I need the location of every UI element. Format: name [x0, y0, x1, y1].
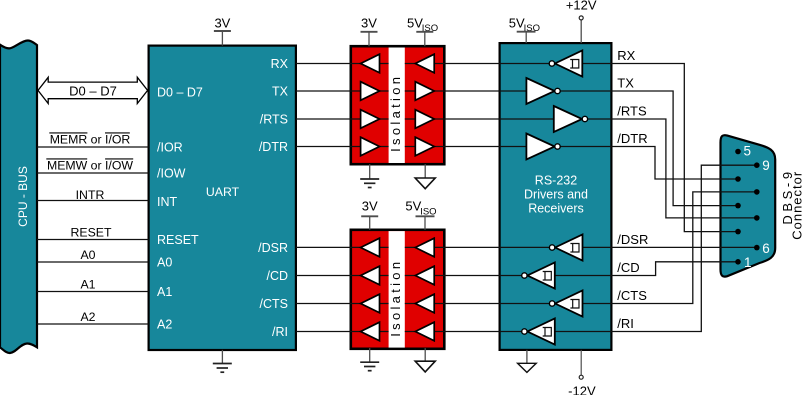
iso ground triangle (isolation upper right): [415, 164, 435, 189]
label MEMR or I/OR: [49, 133, 130, 147]
power 5V ISO (isolation lower): [405, 199, 436, 230]
isolation lower buffer row2 (left, points left): [361, 266, 380, 285]
DB9 pin 6: [754, 245, 760, 251]
receiver /CD (points left, bubble left): [522, 262, 555, 288]
receiver /DSR (points left, bubble left): [549, 234, 582, 260]
svg-text:Connector: Connector: [790, 171, 805, 240]
svg-text:/RI: /RI: [617, 316, 634, 331]
wire MEMW: [37, 172, 149, 174]
svg-text:ISO: ISO: [420, 206, 436, 217]
isolation upper buffer row4 (left, points right): [361, 137, 380, 156]
wire A0: [37, 261, 149, 263]
power 3V (isolation upper): [361, 16, 378, 47]
svg-text:1: 1: [744, 255, 752, 270]
svg-text:TX: TX: [272, 85, 289, 99]
isolation upper buffer row3 (left, points right): [361, 110, 380, 129]
svg-text:RX: RX: [271, 57, 289, 71]
wire INTR: [37, 200, 149, 202]
isolation lower buffer row3 (left, points left): [361, 294, 380, 313]
isolation lower buffer row4 (left, points left): [361, 322, 380, 341]
svg-text:5V: 5V: [509, 16, 525, 31]
svg-text:3V: 3V: [361, 16, 377, 31]
svg-text:5: 5: [744, 144, 752, 159]
svg-text:/IOR: /IOR: [157, 141, 183, 155]
svg-text:/DTR: /DTR: [259, 140, 288, 154]
wire /DTR row: [296, 147, 738, 180]
isolation lower buffer row2 (right, points left): [415, 266, 434, 285]
DB9 pin 9: [754, 162, 760, 168]
DB9 pin 8: [754, 189, 760, 195]
isolation lower buffer row4 (right, points left): [415, 322, 434, 341]
iso ground triangle (RS-232): [518, 350, 537, 373]
isolation upper buffer row1 (right, points left): [415, 54, 434, 73]
block isolation upper: [351, 46, 445, 164]
ground (UART): [213, 350, 232, 372]
isolation lower buffer row1 (left, points left): [361, 238, 380, 257]
svg-text:-12V: -12V: [568, 384, 596, 395]
svg-text:/DTR: /DTR: [617, 131, 647, 146]
driver TX (points right, bubble right): [526, 78, 560, 104]
svg-text:/DSR: /DSR: [258, 241, 288, 255]
DB9 pin 4: [735, 176, 741, 182]
wire MEMR: [37, 146, 149, 148]
isolation upper buffer row3 (right, points right): [415, 110, 434, 129]
isolation upper buffer row2 (left, points right): [361, 82, 380, 101]
power -12V terminal: [568, 350, 596, 395]
svg-text:D0 – D7: D0 – D7: [157, 86, 203, 100]
CPU bus bar: [0, 41, 37, 354]
DB9 pin 1: [735, 259, 741, 265]
power 3V (isolation lower): [361, 199, 378, 230]
svg-text:UART: UART: [206, 185, 240, 199]
svg-text:MEMR or I/OR: MEMR or I/OR: [50, 133, 131, 147]
wire TX row: [296, 91, 738, 206]
DB9 pin 3: [735, 203, 741, 209]
svg-text:Isolation: Isolation: [388, 74, 403, 152]
svg-text:/CTS: /CTS: [260, 297, 288, 311]
DB9 pin 2: [735, 229, 741, 235]
svg-text:A0: A0: [157, 256, 172, 270]
wire /CTS row: [296, 192, 757, 304]
power 5V ISO (RS-232): [509, 16, 540, 44]
power 5V ISO (isolation upper): [407, 16, 438, 47]
driver /RTS (points right, bubble right): [554, 106, 588, 132]
DB9 pin 5: [735, 149, 741, 155]
ground (isolation lower left): [360, 348, 379, 371]
svg-text:6: 6: [762, 241, 770, 256]
svg-text:/RTS: /RTS: [617, 104, 647, 119]
svg-text:RS-232: RS-232: [535, 174, 577, 188]
svg-text:/IOW: /IOW: [157, 167, 186, 181]
svg-text:3V: 3V: [362, 199, 378, 214]
svg-text:ISO: ISO: [422, 23, 438, 34]
svg-text:+12V: +12V: [566, 0, 597, 12]
svg-text:TX: TX: [617, 76, 634, 91]
svg-text:Receivers: Receivers: [528, 202, 584, 216]
svg-text:RESET: RESET: [71, 226, 112, 240]
bus arrow D0 - D7: [38, 77, 148, 103]
wire RX row: [296, 64, 738, 232]
svg-text:D0 – D7: D0 – D7: [69, 84, 117, 99]
svg-text:A0: A0: [80, 248, 95, 262]
power 3V (UART): [214, 16, 231, 46]
isolation channel lower: [389, 231, 405, 348]
isolation upper buffer row1 (left, points left): [361, 54, 380, 73]
svg-text:INTR: INTR: [76, 188, 105, 202]
receiver /CTS (points left, bubble left): [549, 290, 582, 316]
svg-text:/RI: /RI: [272, 325, 288, 339]
svg-text:A1: A1: [157, 285, 172, 299]
wire A2: [37, 323, 149, 325]
svg-text:5V: 5V: [405, 199, 421, 214]
label RS-232 Drivers and Receivers: [524, 174, 588, 216]
svg-text:A1: A1: [80, 278, 95, 292]
svg-text:5V: 5V: [407, 16, 423, 31]
receiver RX (points left, bubble left): [549, 50, 582, 76]
svg-text:9: 9: [762, 158, 770, 173]
power +12V terminal: [566, 0, 597, 43]
wire /RI row: [296, 165, 757, 331]
driver /DTR (points right, bubble right): [526, 134, 560, 160]
UART pin labels left: [157, 86, 203, 332]
isolation lower buffer row1 (right, points left): [415, 238, 434, 257]
wire RESET: [37, 239, 149, 241]
block RS-232 drivers and receivers: [500, 43, 612, 350]
UART pin labels right: [258, 57, 289, 339]
svg-text:A2: A2: [157, 318, 172, 332]
svg-text:A2: A2: [80, 310, 95, 324]
wire A1: [37, 291, 149, 293]
svg-text:/DSR: /DSR: [617, 232, 648, 247]
block UART U1: [149, 46, 296, 350]
svg-text:/RTS: /RTS: [260, 113, 288, 127]
svg-text:RESET: RESET: [157, 233, 199, 247]
svg-text:ISO: ISO: [524, 23, 540, 34]
isolation upper buffer row4 (right, points right): [415, 137, 434, 156]
svg-text:RX: RX: [617, 48, 635, 63]
svg-text:MEMW or I/OW: MEMW or I/OW: [47, 159, 133, 173]
svg-text:CPU - BUS: CPU - BUS: [16, 166, 30, 227]
svg-text:Isolation: Isolation: [388, 259, 403, 337]
ground (isolation upper left): [360, 164, 379, 187]
label MEMW or I/OW: [46, 159, 133, 173]
DB9 pin 7: [754, 215, 760, 221]
svg-text:3V: 3V: [214, 16, 230, 31]
wire /DSR row: [296, 246, 757, 248]
isolation channel upper: [389, 48, 405, 164]
block isolation lower: [351, 230, 445, 349]
label DBS-9 Connector: [780, 168, 805, 239]
DB9 connector body: [721, 135, 776, 276]
svg-text:/CD: /CD: [617, 260, 639, 275]
svg-text:/CTS: /CTS: [617, 288, 647, 303]
wire /CD row: [296, 262, 738, 276]
svg-text:Drivers and: Drivers and: [524, 188, 588, 202]
svg-text:/CD: /CD: [266, 269, 288, 283]
svg-text:INT: INT: [157, 195, 178, 209]
isolation lower buffer row3 (right, points left): [415, 294, 434, 313]
receiver /RI (points left, bubble left): [522, 318, 555, 344]
isolation upper buffer row2 (right, points right): [415, 82, 434, 101]
iso ground triangle (isolation lower right): [415, 348, 435, 372]
wire /RTS row: [296, 119, 757, 218]
